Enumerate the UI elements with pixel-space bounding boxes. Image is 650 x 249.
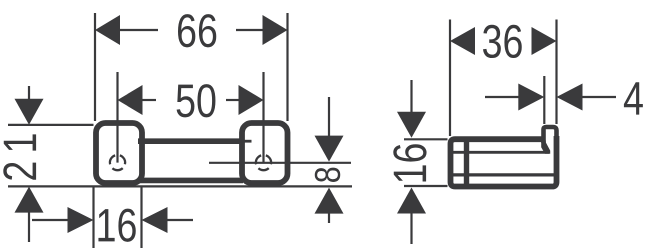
wire rail top edge (front view) [138,138,243,144]
arrowhead dim 50 left [118,85,143,115]
hook plate left (front view rounded square) [96,123,142,183]
arrowhead dim 36 right [532,27,557,55]
wire vertical centerline of left hole (extension of dim 50) [116,72,118,163]
arrowhead dim 16 side top [397,112,426,138]
side profile outer contour [451,136,557,187]
value label 16 front [98,209,135,242]
wire dim 50 left tail [142,99,157,101]
arrowhead dim 21 top [15,99,44,125]
wire top extension line of dim 21 [8,124,94,126]
hook plate right (front view rounded square) [242,123,288,183]
wire shared right extension line of dims 36 and 4 (side view) [555,20,557,125]
wire right extension line of dim 66 [286,13,288,121]
wire horizontal centerline through right hole (top extension of dim 8) [209,162,351,164]
wire right extension line of dim 16 front [140,186,142,248]
arrowhead dim 66 right [263,15,288,45]
wire dim 21 bottom tail [28,211,30,242]
wire shared bottom extension line (front view, dims 21 and 8) [8,185,352,187]
wire dim 8 top tail [328,97,330,138]
wire left extension line of dim 36 (side view) [449,20,451,137]
wire dim 16 front left tail [32,219,69,221]
wire dim 4 right tail [581,96,617,98]
value label 66 [178,14,216,47]
arrowhead dim 16 front left [68,207,94,233]
wire thin tick inside right hook [243,140,252,143]
arrowhead dim 66 left [95,15,120,45]
wire dim 50 right tail [226,99,240,101]
wire dim 66 right tail [236,29,264,31]
wire dim 16 side bottom tail [410,212,412,245]
hole right dashed screw circle [253,152,274,173]
wire dim 4 left tail [485,96,519,98]
wire dim 66 left tail [119,29,158,31]
wire side profile wall plate inner vertical [464,139,469,187]
arrowhead dim 16 side bottom [397,188,426,214]
wire rail bottom edge (front view) [138,178,243,184]
arrowhead dim 4 right (pointing left) [557,84,583,111]
wire dim 21 top tail [28,86,30,101]
value label 50 [177,84,216,117]
wire side profile inner lower line [451,173,555,176]
arrowhead dim 8 bottom [315,188,344,214]
value label 4 [624,82,643,114]
arrowhead dim 36 left [450,27,475,55]
wire side profile inner upper line [451,151,550,154]
wire dim 8 bottom tail [328,212,330,223]
wire top extension line of dim 16 side [404,138,448,140]
wire left extension line of dim 16 front [92,186,94,248]
wire dim 16 side top tail [410,80,412,114]
arrowhead dim 21 bottom [15,187,44,213]
wire dim 16 front right tail [167,219,194,221]
wire left extension line of dim 66 [94,13,96,121]
wire left extension line of dim 4 (side view) [543,76,545,124]
arrowhead dim 16 front right [142,207,168,233]
value label 36 [483,25,522,58]
wire bottom extension line of dim 16 side [404,185,448,187]
hole left dashed screw circle [107,152,128,173]
arrowhead dim 50 right [239,85,264,115]
value label 21 [3,134,36,179]
arrowhead dim 4 left (pointing right) [518,84,544,111]
arrowhead dim 8 top [315,136,344,162]
wire vertical centerline of right hole (extension of dim 50) [262,72,264,163]
value label 16 side [393,144,426,181]
side profile hook lip [544,127,557,143]
side profile lip chamfer [541,141,550,154]
value label 8 [315,168,340,182]
